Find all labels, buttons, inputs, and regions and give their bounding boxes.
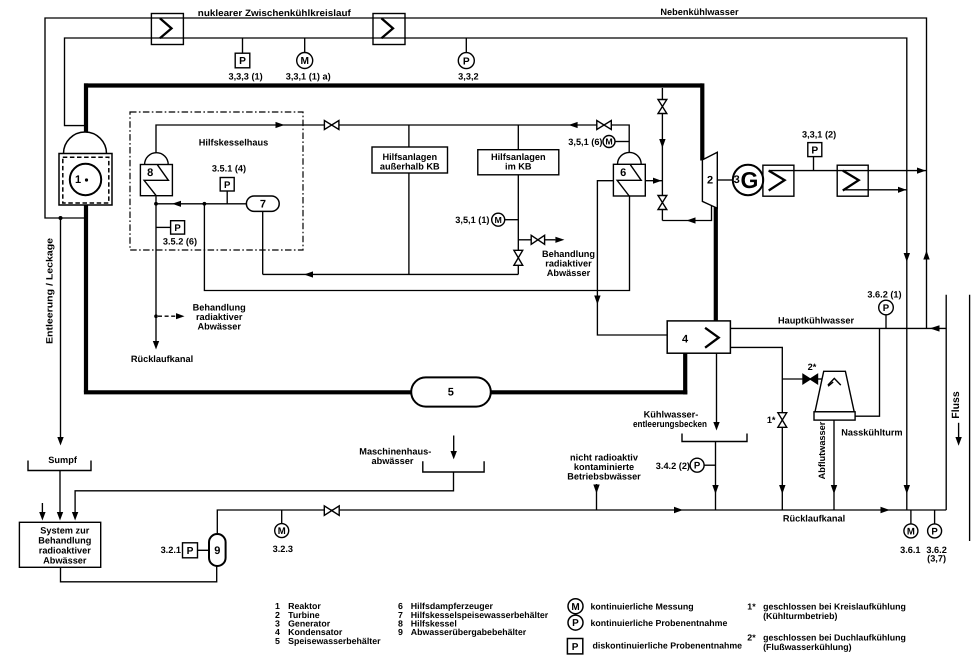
svg-text:9: 9	[214, 545, 220, 557]
svg-text:Behandlung: Behandlung	[38, 536, 91, 546]
steam generator 6 box	[613, 164, 645, 196]
wire P 3.5.1(4) stub	[226, 191, 228, 204]
svg-text:P: P	[694, 461, 701, 472]
wire Abflutwasser down	[833, 420, 835, 510]
sample point P 3.6.2 (1) circle	[879, 300, 894, 315]
Hilfskessel 8 dome	[145, 153, 169, 165]
valve 2* (filled)	[803, 374, 818, 383]
svg-text:P: P	[931, 526, 938, 537]
wire HX bottom pipe to x=906.8	[843, 189, 907, 191]
wire arrow into Maschinenhaus tub	[453, 436, 455, 452]
vessel 7 Hilfskesselspeisewasserbehaelter	[246, 196, 279, 211]
svg-text:Fluss: Fluss	[950, 391, 962, 419]
wire nuklearer Zwischenkuehlkreislauf return (line B)	[65, 38, 907, 510]
wire steam to Hilfsdampferzeuger 6	[646, 180, 663, 182]
Hilfskessel 8 zigzag	[144, 165, 168, 196]
svg-text:Speisewasserbehälter: Speisewasserbehälter	[288, 636, 381, 646]
wire Hauptkuehlwasser line	[730, 327, 946, 329]
svg-text:Betriebsbwässer: Betriebsbwässer	[567, 472, 641, 482]
wire HX top pipe to x=926.5	[769, 170, 927, 172]
wire branch to valve 2* and tower	[782, 378, 803, 380]
svg-text:5: 5	[275, 636, 280, 646]
svg-text:P: P	[572, 618, 579, 629]
condenser 4 chevron	[705, 328, 719, 348]
generator U3 circle	[733, 165, 763, 195]
svg-text:1: 1	[75, 174, 81, 186]
svg-text:im KB: im KB	[505, 162, 532, 172]
Hilfskessel 8 box	[140, 165, 172, 196]
valve on Behandlung branch	[531, 235, 544, 244]
wire System to vessel 9	[61, 566, 217, 582]
wire KB boundary right lower (becken side)	[683, 353, 687, 394]
svg-text:System zur: System zur	[40, 525, 89, 535]
svg-text:P: P	[239, 56, 246, 67]
measurement M 3,3,1 (1) a) circle	[297, 53, 313, 69]
turbine 2	[702, 152, 717, 208]
svg-text:M: M	[571, 602, 579, 613]
valve upper on steam header	[658, 100, 667, 114]
svg-text:P: P	[187, 546, 194, 557]
svg-text:3.5.1 (4): 3.5.1 (4)	[212, 163, 246, 173]
measurement M 3.6.1 circle	[904, 524, 918, 538]
svg-text:3,3,2: 3,3,2	[458, 71, 478, 81]
svg-text:3,3,1 (1) a): 3,3,1 (1) a)	[286, 71, 331, 81]
svg-text:3.6.2 (1): 3.6.2 (1)	[867, 290, 901, 300]
wire nuklearer Zwischenkuehlkreislauf supply (line A)	[45, 18, 927, 328]
wire Sumpf to System	[59, 471, 61, 513]
svg-text:4: 4	[682, 333, 689, 345]
svg-text:3: 3	[734, 174, 740, 186]
sample point P 3.5.1 (4) square	[220, 178, 234, 192]
wire arrows on Ruecklaufkanal line	[674, 507, 683, 513]
svg-text:Abflutwasser: Abflutwasser	[817, 421, 827, 479]
svg-text:(3,7): (3,7)	[927, 554, 946, 564]
svg-text:geschlossen bei Duchlaufkühlun: geschlossen bei Duchlaufkühlung	[763, 633, 906, 643]
wire arrow into System (left)	[41, 503, 43, 512]
reactor R1 dome	[64, 132, 107, 154]
svg-text:P: P	[572, 642, 579, 653]
valve vertical on im KB line	[514, 250, 523, 265]
svg-text:3.6.1: 3.6.1	[900, 545, 920, 555]
cooling tower basin	[814, 412, 855, 420]
measurement M 3,5,1 (6) circle	[603, 136, 615, 148]
wire condenser to valve 1* branch	[730, 347, 782, 510]
wire P 3.6.2(1) stub	[885, 314, 887, 328]
svg-text:Behandlung: Behandlung	[542, 249, 595, 259]
wire KB boundary turbine to condenser	[714, 208, 718, 322]
svg-text:3.5.2 (6): 3.5.2 (6)	[163, 237, 197, 247]
wire tower outlet to Hauptkuehlwasser	[855, 328, 879, 416]
wire measurement stubs top loop	[242, 38, 244, 53]
heat exchanger HX-D (Nebenkuehlwasser right)	[837, 165, 868, 196]
steam generator 6 dome	[618, 152, 642, 164]
svg-text:3,5,1 (6): 3,5,1 (6)	[568, 137, 602, 147]
wire Entleerung/Leckage down to Sumpf	[60, 218, 62, 437]
svg-text:P: P	[224, 180, 231, 191]
svg-text:3.2.1: 3.2.1	[161, 545, 181, 555]
wire collector P2	[204, 196, 629, 291]
svg-text:1*: 1*	[747, 602, 756, 612]
wire nicht radioaktiv arrow	[596, 484, 598, 510]
svg-text:M: M	[495, 215, 502, 225]
wire P 3.5.2 stub	[156, 226, 171, 228]
wire arrows on Nebenkuehlwasser verticals	[904, 253, 910, 262]
wire dashed branch Behandlung	[158, 315, 176, 317]
wire Maschinenhaus-abwaesser line	[75, 472, 453, 512]
svg-text:kontaminierte: kontaminierte	[574, 462, 634, 472]
svg-text:Abwässer: Abwässer	[43, 555, 87, 565]
svg-text:Abwässer: Abwässer	[197, 321, 241, 331]
svg-text:Nasskühlturm: Nasskühlturm	[841, 427, 902, 437]
valve lower on steam header	[658, 196, 667, 210]
heat exchanger HX-C (Nebenkuehlwasser left)	[763, 165, 794, 196]
wire vessel 7 down	[262, 211, 264, 274]
svg-text:1*: 1*	[767, 415, 776, 425]
wire P 3.4.2 stub	[704, 464, 716, 466]
svg-text:Nebenkühlwasser: Nebenkühlwasser	[660, 7, 739, 17]
node junction Entleerung	[59, 216, 63, 220]
svg-text:(Kühlturmbetrieb): (Kühlturmbetrieb)	[763, 611, 837, 621]
svg-text:(Flußwasserkühlung): (Flußwasserkühlung)	[763, 642, 852, 652]
svg-text:7: 7	[260, 198, 266, 210]
Maschinenhaus tub	[423, 461, 484, 472]
svg-text:Entleerung / Leckage: Entleerung / Leckage	[44, 238, 54, 344]
wire Fluss flow arrow	[958, 423, 960, 438]
sample point P 3,3,3 (1) square	[235, 53, 250, 68]
svg-text:kontinuierliche Probenentnahme: kontinuierliche Probenentnahme	[591, 618, 728, 628]
valve 1*	[778, 413, 787, 428]
wire KB boundary top edge	[84, 83, 702, 87]
Sumpf tub	[28, 461, 91, 471]
svg-text:M: M	[605, 137, 612, 147]
becken tub (Kuehlwasserentleerungsbecken)	[682, 434, 747, 442]
svg-text:6: 6	[620, 167, 626, 179]
svg-text:2*: 2*	[808, 362, 817, 372]
node junction dashed branch	[154, 314, 158, 318]
svg-text:3.2.3: 3.2.3	[273, 544, 293, 554]
svg-text:Abwässer: Abwässer	[547, 268, 591, 278]
Hilfskesselhaus dash-dot enclosure	[130, 112, 303, 250]
svg-text:nuklearer Zwischenkühlkreislau: nuklearer Zwischenkühlkreislauf	[198, 8, 352, 18]
vessel 9 Abwasseruebergabebehaelter	[209, 534, 226, 566]
sample point P 3,3,2 circle	[458, 53, 474, 69]
svg-text:P: P	[463, 56, 470, 67]
valve on transfer line	[324, 506, 339, 515]
wire condenser drain to becken	[716, 353, 718, 422]
svg-text:Sumpf: Sumpf	[48, 455, 78, 465]
svg-text:Hilfskesselhaus: Hilfskesselhaus	[199, 137, 268, 147]
wire Hilfskessel header y=125	[156, 125, 629, 153]
svg-text:entleerungsbecken: entleerungsbecken	[633, 419, 707, 429]
condenser 4 box	[667, 321, 730, 353]
wire Hilfsanlagen ausserhalb KB vertical	[408, 125, 410, 274]
sample point P 3.6.2 (3,7) circle	[928, 524, 942, 538]
svg-text:radioaktiver: radioaktiver	[39, 545, 92, 555]
svg-text:2*: 2*	[747, 633, 756, 643]
box Hilfsanlagen im KB	[478, 150, 559, 175]
svg-text:Kühlwasser-: Kühlwasser-	[644, 410, 699, 420]
svg-text:nicht radioaktiv: nicht radioaktiv	[570, 453, 639, 463]
svg-text:diskontinuierliche Probenentna: diskontinuierliche Probenentnahme	[593, 640, 743, 650]
wire KB boundary right upper (to turbine)	[700, 83, 704, 160]
wire KB boundary bottom right of vessel 5	[490, 390, 687, 394]
reactor R1 outer box	[59, 154, 112, 206]
valve on Hilfskessel header (right)	[597, 121, 612, 130]
cooling tower spray symbol	[828, 378, 841, 385]
wire KB boundary left below reactor	[84, 205, 88, 392]
wire KB boundary left above reactor	[84, 83, 88, 133]
sample point P 3.5.2 (6) square	[171, 221, 185, 234]
svg-text:9: 9	[398, 627, 403, 637]
wire Hilfskessel 8 to vessel 7	[156, 203, 246, 205]
svg-text:radiaktiver: radiaktiver	[545, 259, 592, 269]
reactor R1 core circle	[70, 164, 101, 195]
svg-text:außerhalb KB: außerhalb KB	[380, 162, 440, 172]
svg-text:geschlossen bei Kreislaufkühlu: geschlossen bei Kreislaufkühlung	[763, 602, 906, 612]
svg-text:abwässer: abwässer	[372, 456, 414, 466]
svg-text:M: M	[300, 56, 309, 67]
svg-text:P: P	[174, 223, 181, 234]
svg-text:P: P	[811, 145, 818, 156]
wire M 3.2.3 stub	[281, 510, 283, 524]
wire M 3,5,1(6) stub	[615, 141, 629, 143]
svg-text:P: P	[883, 303, 890, 314]
sample point P 3,3,1 (2) square	[808, 143, 822, 157]
wire M 3,5,1(1) stub	[505, 219, 519, 221]
svg-text:Behandlung: Behandlung	[193, 302, 246, 312]
svg-text:3,3,1 (2): 3,3,1 (2)	[802, 130, 836, 140]
wire KB boundary bottom left of vessel 5	[84, 390, 412, 394]
box Hilfsanlagen ausserhalb KB	[372, 147, 448, 173]
svg-text:G: G	[741, 167, 759, 193]
svg-text:3,3,3 (1): 3,3,3 (1)	[228, 71, 262, 81]
box System zur Behandlung	[19, 522, 100, 567]
wire turbine extraction to steam header	[662, 206, 711, 221]
wire 6 left to condenser	[597, 181, 667, 335]
heat exchanger HX-A (Zwischenkuehlkreislauf left)	[151, 14, 183, 45]
svg-text:Maschinenhaus-: Maschinenhaus-	[359, 447, 431, 457]
wire P 3,3,1(2) stub	[813, 157, 815, 171]
legend P square	[567, 639, 582, 654]
sample point P 3.4.2 (2) circle	[690, 458, 704, 472]
sample point P 3.2.1 square	[183, 543, 198, 558]
svg-text:radiaktiver: radiaktiver	[196, 312, 243, 322]
wire vessel 9 to Ruecklaufkanal line	[217, 510, 946, 534]
reactor R1 inner dashed containment	[63, 157, 109, 203]
valve on Hilfskessel header (left)	[324, 121, 339, 130]
wire M 3.6.1 / P 3.6.2 stubs	[910, 510, 912, 524]
wire Behandlung branch with valve	[518, 239, 531, 241]
wire steam header vertical x=662.4	[661, 88, 663, 221]
wire Hilfskessel 8 blowdown to Ruecklaufkanal	[155, 196, 157, 341]
steam generator 6 zigzag	[617, 165, 641, 196]
svg-text:5: 5	[448, 387, 454, 399]
wire collector P1 y=274.5	[263, 273, 519, 275]
wire Hilfsanlagen im KB vertical	[517, 125, 519, 274]
svg-text:3,5,1 (1): 3,5,1 (1)	[455, 215, 489, 225]
svg-text:Abwasserübergabebehälter: Abwasserübergabebehälter	[411, 627, 527, 637]
heat exchanger HX-B (Zwischenkuehlkreislauf right)	[373, 14, 405, 45]
wire becken outlet down	[715, 442, 717, 511]
feedwater vessel 5	[411, 377, 491, 406]
svg-text:Hauptkühlwasser: Hauptkühlwasser	[778, 315, 854, 325]
svg-text:kontinuierliche Messung: kontinuierliche Messung	[591, 602, 694, 612]
svg-text:Rücklaufkanal: Rücklaufkanal	[131, 354, 193, 364]
svg-text:Rücklaufkanal: Rücklaufkanal	[783, 513, 845, 523]
svg-text:2: 2	[707, 174, 713, 186]
cooling tower Nasskuehlturm	[815, 371, 854, 412]
svg-text:8: 8	[147, 167, 153, 179]
wire turbine to generator	[717, 179, 733, 181]
svg-text:M: M	[907, 526, 915, 537]
legend P circle	[568, 615, 583, 630]
measurement M 3,5,1 (1) circle	[492, 213, 505, 226]
legend M circle	[568, 599, 583, 614]
svg-text:3.4.2 (2): 3.4.2 (2)	[656, 461, 690, 471]
measurement M 3.2.3 circle	[275, 524, 289, 538]
wire Fluss river lines	[945, 295, 947, 510]
svg-text:M: M	[278, 526, 286, 537]
